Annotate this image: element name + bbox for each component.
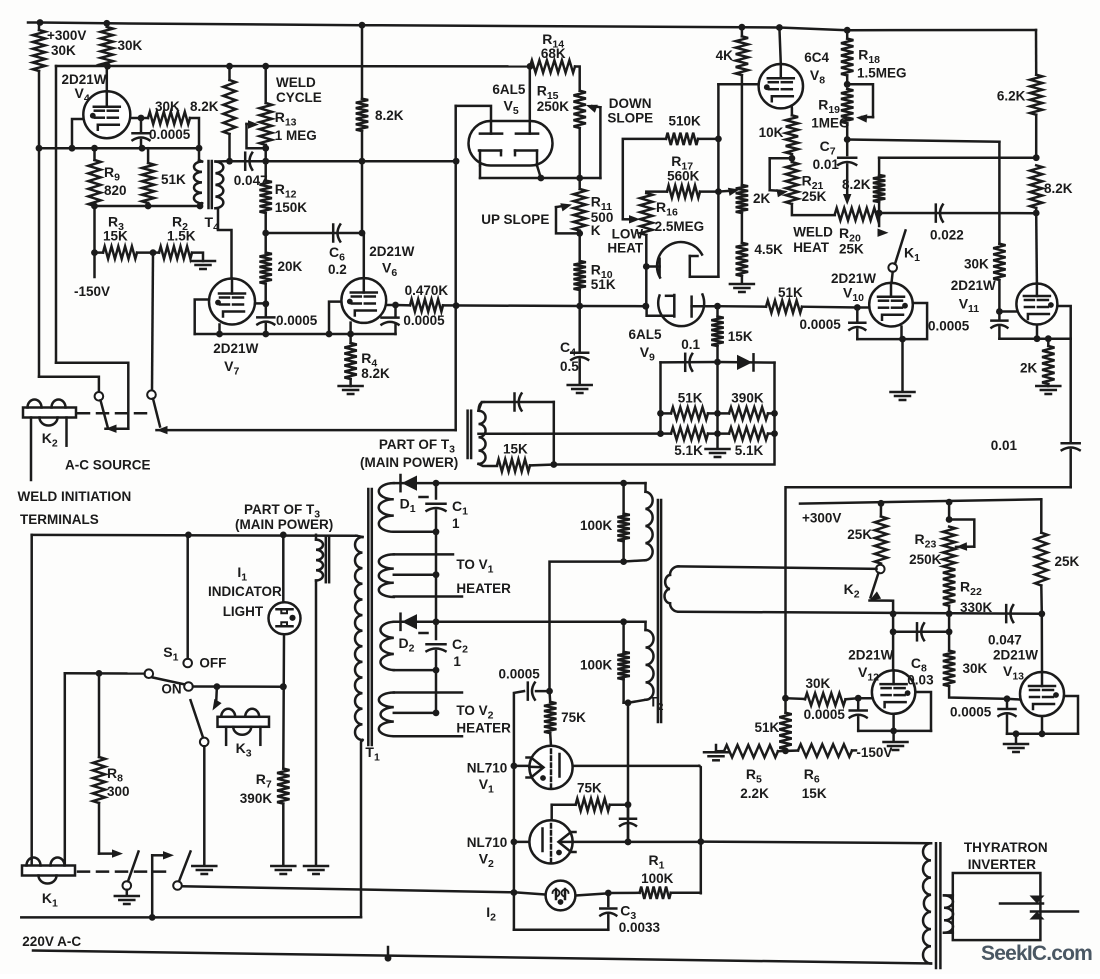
- svg-text:100K: 100K: [580, 518, 613, 533]
- svg-text:8.2K: 8.2K: [375, 108, 404, 123]
- svg-text:SLOPE: SLOPE: [607, 111, 653, 126]
- svg-text:-150V: -150V: [856, 745, 892, 760]
- svg-text:NL710: NL710: [467, 835, 508, 850]
- svg-text:2D21W: 2D21W: [213, 341, 258, 356]
- svg-text:220V A-C: 220V A-C: [22, 934, 81, 949]
- svg-text:INVERTER: INVERTER: [968, 857, 1037, 872]
- svg-text:+300V: +300V: [802, 511, 841, 526]
- svg-text:6AL5: 6AL5: [492, 82, 526, 97]
- svg-text:6.2K: 6.2K: [997, 89, 1026, 104]
- svg-text:25K: 25K: [839, 242, 864, 257]
- svg-text:HEATER: HEATER: [456, 581, 511, 596]
- svg-text:30K: 30K: [155, 99, 180, 114]
- svg-text:250K: 250K: [537, 99, 570, 114]
- svg-text:0.0005: 0.0005: [804, 707, 846, 722]
- svg-text:6C4: 6C4: [804, 50, 829, 65]
- svg-text:A-C SOURCE: A-C SOURCE: [65, 458, 151, 473]
- svg-text:5.1K: 5.1K: [674, 443, 703, 458]
- svg-text:8.2K: 8.2K: [361, 366, 390, 381]
- svg-text:51K: 51K: [678, 391, 703, 406]
- svg-text:+300V: +300V: [47, 28, 86, 43]
- svg-text:2D21W: 2D21W: [369, 244, 414, 259]
- svg-text:0.0005: 0.0005: [276, 313, 318, 328]
- svg-text:1.5K: 1.5K: [167, 229, 196, 244]
- svg-text:8.2K: 8.2K: [190, 99, 219, 114]
- svg-text:INDICATOR: INDICATOR: [208, 584, 282, 599]
- svg-text:100K: 100K: [641, 871, 674, 886]
- svg-text:(MAIN POWER): (MAIN POWER): [235, 517, 333, 532]
- svg-text:51K: 51K: [591, 277, 616, 292]
- svg-text:0.0033: 0.0033: [619, 920, 661, 935]
- svg-text:HEAT: HEAT: [793, 240, 830, 255]
- svg-text:560K: 560K: [667, 169, 700, 184]
- svg-text:30K: 30K: [963, 661, 988, 676]
- svg-text:15K: 15K: [103, 229, 128, 244]
- svg-text:75K: 75K: [561, 710, 586, 725]
- svg-text:LIGHT: LIGHT: [223, 604, 264, 619]
- svg-text:LOW: LOW: [612, 227, 644, 242]
- svg-text:250K: 250K: [909, 552, 942, 567]
- svg-text:THYRATRON: THYRATRON: [964, 840, 1048, 855]
- svg-text:51K: 51K: [161, 172, 186, 187]
- svg-text:100K: 100K: [580, 658, 613, 673]
- svg-text:390K: 390K: [240, 791, 273, 806]
- svg-text:0.0005: 0.0005: [928, 319, 970, 334]
- svg-text:K: K: [591, 223, 601, 238]
- svg-text:30K: 30K: [964, 257, 989, 272]
- svg-text:2D21W: 2D21W: [62, 72, 107, 87]
- svg-text:DOWN: DOWN: [609, 96, 652, 111]
- svg-text:30K: 30K: [806, 676, 831, 691]
- svg-text:25K: 25K: [1055, 554, 1080, 569]
- svg-text:2D21W: 2D21W: [993, 648, 1038, 663]
- svg-text:0.470K: 0.470K: [405, 283, 449, 298]
- svg-text:2.5MEG: 2.5MEG: [655, 219, 705, 234]
- svg-text:330K: 330K: [960, 600, 993, 615]
- svg-text:150K: 150K: [275, 200, 308, 215]
- svg-text:2D21W: 2D21W: [951, 278, 996, 293]
- svg-text:25K: 25K: [802, 189, 827, 204]
- svg-text:4K: 4K: [716, 48, 734, 63]
- svg-text:0.0005: 0.0005: [149, 127, 191, 142]
- svg-text:0.0005: 0.0005: [800, 317, 842, 332]
- svg-text:WELD INITIATION: WELD INITIATION: [18, 489, 132, 504]
- svg-text:0.2: 0.2: [328, 262, 347, 277]
- svg-text:WELD: WELD: [276, 75, 316, 90]
- svg-text:1: 1: [452, 516, 460, 531]
- svg-text:2.2K: 2.2K: [740, 786, 769, 801]
- svg-text:0.0005: 0.0005: [403, 313, 445, 328]
- svg-text:0.0005: 0.0005: [499, 667, 541, 682]
- svg-text:0.0005: 0.0005: [950, 705, 992, 720]
- svg-text:390K: 390K: [731, 391, 764, 406]
- svg-text:0.047: 0.047: [988, 633, 1022, 648]
- svg-text:4.5K: 4.5K: [754, 242, 783, 257]
- svg-text:1.5MEG: 1.5MEG: [857, 66, 907, 81]
- svg-text:HEAT: HEAT: [607, 241, 644, 256]
- svg-text:300: 300: [107, 784, 130, 799]
- svg-text:820: 820: [104, 183, 127, 198]
- svg-text:1: 1: [453, 654, 461, 669]
- svg-text:SeekIC.com: SeekIC.com: [981, 942, 1092, 965]
- svg-text:8.2K: 8.2K: [1044, 181, 1073, 196]
- svg-text:1 MEG: 1 MEG: [275, 128, 317, 143]
- svg-text:15K: 15K: [728, 329, 753, 344]
- svg-text:TERMINALS: TERMINALS: [20, 512, 99, 527]
- svg-text:OFF: OFF: [199, 656, 226, 671]
- svg-text:2K: 2K: [1020, 361, 1038, 376]
- svg-text:25K: 25K: [847, 527, 872, 542]
- svg-text:0.022: 0.022: [930, 228, 964, 243]
- svg-text:CYCLE: CYCLE: [276, 90, 322, 105]
- svg-text:75K: 75K: [577, 781, 602, 796]
- svg-text:5.1K: 5.1K: [735, 443, 764, 458]
- svg-text:2D21W: 2D21W: [848, 648, 893, 663]
- svg-text:HEATER: HEATER: [456, 721, 511, 736]
- svg-text:15K: 15K: [503, 442, 528, 457]
- svg-text:510K: 510K: [669, 114, 702, 129]
- svg-text:UP SLOPE: UP SLOPE: [481, 212, 549, 227]
- svg-text:0.03: 0.03: [907, 673, 934, 688]
- svg-text:30K: 30K: [118, 38, 143, 53]
- svg-text:(MAIN POWER): (MAIN POWER): [360, 455, 458, 470]
- svg-text:0.047: 0.047: [234, 173, 268, 188]
- svg-text:20K: 20K: [278, 259, 303, 274]
- svg-text:1MEG: 1MEG: [811, 116, 849, 131]
- svg-text:0.01: 0.01: [991, 438, 1018, 453]
- svg-text:WELD: WELD: [793, 225, 833, 240]
- svg-text:68K: 68K: [541, 46, 566, 61]
- svg-text:8.2K: 8.2K: [842, 177, 871, 192]
- svg-text:2K: 2K: [753, 191, 771, 206]
- svg-text:6AL5: 6AL5: [629, 327, 663, 342]
- svg-text:51K: 51K: [778, 285, 803, 300]
- svg-text:0.5: 0.5: [560, 359, 579, 374]
- svg-text:-150V: -150V: [74, 284, 110, 299]
- svg-text:15K: 15K: [802, 786, 827, 801]
- svg-text:2D21W: 2D21W: [831, 271, 876, 286]
- svg-text:30K: 30K: [51, 43, 76, 58]
- svg-text:0.1: 0.1: [681, 337, 700, 352]
- svg-text:51K: 51K: [755, 720, 780, 735]
- svg-text:NL710: NL710: [467, 761, 508, 776]
- svg-text:0.01: 0.01: [813, 157, 840, 172]
- svg-text:ON: ON: [161, 682, 181, 697]
- svg-text:10K: 10K: [759, 125, 784, 140]
